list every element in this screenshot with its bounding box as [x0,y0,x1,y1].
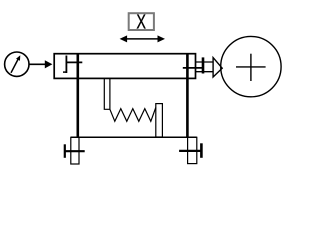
svg-text:X: X [136,10,146,33]
